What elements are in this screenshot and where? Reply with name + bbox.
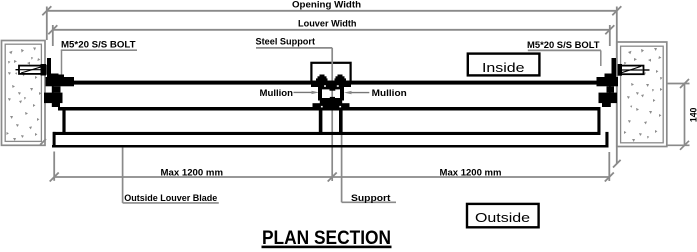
left wall concrete speckles xyxy=(6,48,41,142)
svg-text:Max 1200 mm: Max 1200 mm xyxy=(440,168,502,178)
svg-text:Support: Support xyxy=(351,193,391,203)
right wall concrete speckles xyxy=(624,48,662,142)
frame line L4 (outside face) xyxy=(52,145,609,148)
left concrete wall outer outline xyxy=(2,41,46,146)
svg-text:Outside Louver Blade: Outside Louver Blade xyxy=(124,193,217,203)
mullion support tube left wall xyxy=(319,111,323,134)
Outside Louver Blade leader xyxy=(122,148,124,203)
right upper clip xyxy=(597,77,619,86)
right frame end cap xyxy=(597,107,600,135)
opening width end ticks xyxy=(40,6,621,167)
steel support clips inside box xyxy=(318,76,327,81)
mullion bottom tab xyxy=(330,97,335,99)
svg-text:Max 1200 mm: Max 1200 mm xyxy=(161,167,224,177)
right mid block xyxy=(607,86,615,92)
svg-text:140: 140 xyxy=(689,108,697,123)
mullion support tube right wall xyxy=(339,111,343,134)
left concrete wall inner outline xyxy=(5,44,41,141)
140 dimension xyxy=(667,84,690,146)
left wall bracket xyxy=(47,58,51,78)
svg-text:Opening Width: Opening Width xyxy=(292,0,361,10)
svg-text:Louver Width: Louver Width xyxy=(298,18,357,28)
right lower clip xyxy=(599,93,618,104)
steel support leader / center extension line xyxy=(331,48,333,181)
Support leader xyxy=(341,134,343,202)
svg-text:Steel Support: Steel Support xyxy=(256,37,316,47)
svg-text:Mullion: Mullion xyxy=(372,88,407,98)
right concrete wall outer outline xyxy=(617,42,667,147)
mullion pedestal xyxy=(320,100,342,104)
mullion top tab xyxy=(330,89,336,91)
left clip connector xyxy=(52,86,54,107)
right clip connector xyxy=(609,86,611,107)
svg-text:Inside: Inside xyxy=(482,60,525,75)
steel support box (white fill) xyxy=(311,63,350,84)
max 1200 ticks xyxy=(50,173,614,182)
left mid block xyxy=(53,86,61,92)
svg-text:M5*20 S/S BOLT: M5*20 S/S BOLT xyxy=(527,40,600,50)
Outside label box xyxy=(467,204,539,227)
left lower clip xyxy=(44,93,63,104)
under-L1 reinforcement band at mullion xyxy=(311,81,351,87)
louver width end ticks xyxy=(48,25,614,34)
left upper clip xyxy=(46,77,75,86)
frame line L1 (inside face, thick) xyxy=(54,81,615,85)
right concrete wall inner outline xyxy=(621,46,664,143)
right anchor bolt (outlined) xyxy=(617,64,650,76)
left outer channel cap xyxy=(53,132,56,148)
mullion box xyxy=(318,87,344,101)
max 1200 dimension line xyxy=(54,152,609,182)
louver width dimension line xyxy=(53,25,610,46)
svg-text:Mullion: Mullion xyxy=(260,88,294,98)
Inside label box xyxy=(468,54,540,76)
left frame end cap xyxy=(62,107,65,135)
right wall bracket xyxy=(612,58,617,78)
left anchor bolt (outlined) xyxy=(16,64,47,76)
opening width dimension line xyxy=(47,7,617,164)
svg-text:Outside: Outside xyxy=(475,210,530,225)
centerline segment inside mullion xyxy=(331,89,333,98)
frame line L3 xyxy=(53,132,600,135)
svg-text:M5*20 S/S BOLT: M5*20 S/S BOLT xyxy=(61,39,136,49)
right outer channel cap xyxy=(605,132,608,148)
frame line L2 xyxy=(58,107,600,111)
